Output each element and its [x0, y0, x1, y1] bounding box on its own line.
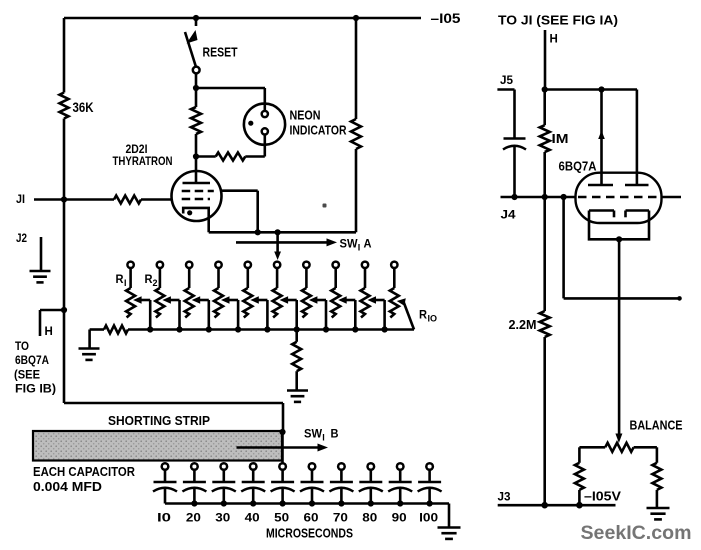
svg-text:FIG IB): FIG IB): [15, 382, 56, 396]
svg-text:–I05V: –I05V: [584, 490, 622, 504]
svg-text:R: R: [419, 308, 427, 322]
svg-text:SW: SW: [340, 237, 359, 251]
svg-text:6BQ7A: 6BQ7A: [15, 353, 49, 367]
svg-text:THYRATRON: THYRATRON: [113, 154, 173, 168]
svg-text:RESET: RESET: [203, 46, 238, 60]
svg-text:30: 30: [215, 511, 230, 525]
svg-text:2: 2: [153, 278, 158, 288]
svg-text:TO JI (SEE FIG IA): TO JI (SEE FIG IA): [498, 14, 618, 28]
svg-text:JI: JI: [16, 194, 25, 206]
svg-text:R: R: [116, 272, 124, 286]
svg-text:TO: TO: [15, 339, 29, 353]
svg-text:60: 60: [304, 511, 319, 525]
svg-text:H: H: [45, 326, 53, 338]
svg-text:BALANCE: BALANCE: [630, 419, 683, 433]
svg-text:I: I: [124, 278, 127, 288]
svg-text:B: B: [331, 427, 339, 441]
svg-text:40: 40: [245, 511, 260, 525]
svg-text:J5: J5: [500, 75, 514, 87]
svg-text:NEON: NEON: [290, 109, 321, 123]
svg-text:SHORTING STRIP: SHORTING STRIP: [108, 414, 210, 428]
svg-text:6BQ7A: 6BQ7A: [559, 160, 597, 174]
svg-text:SeekIC.com: SeekIC.com: [581, 522, 692, 544]
svg-text:J2: J2: [16, 233, 27, 245]
svg-text:20: 20: [186, 511, 201, 525]
svg-text:EACH CAPACITOR: EACH CAPACITOR: [33, 465, 135, 479]
svg-text:IO: IO: [428, 314, 438, 324]
svg-text:INDICATOR: INDICATOR: [290, 124, 347, 138]
svg-text:0.004 MFD: 0.004 MFD: [33, 480, 102, 494]
svg-text:50: 50: [274, 511, 289, 525]
svg-text:H: H: [550, 34, 558, 46]
svg-text:MICROSECONDS: MICROSECONDS: [266, 527, 353, 541]
svg-text:70: 70: [333, 511, 348, 525]
svg-text:I00: I00: [419, 511, 438, 525]
svg-text:2.2M: 2.2M: [509, 318, 537, 332]
svg-text:I: I: [358, 243, 361, 253]
svg-text:I: I: [322, 433, 325, 443]
svg-text:I0: I0: [157, 511, 171, 525]
svg-text:IM: IM: [552, 132, 569, 146]
svg-text:90: 90: [392, 511, 407, 525]
svg-text:(SEE: (SEE: [14, 368, 40, 382]
svg-text:J3: J3: [498, 492, 511, 504]
svg-text:80: 80: [362, 511, 377, 525]
svg-text:J4: J4: [501, 210, 517, 222]
svg-text:36K: 36K: [73, 99, 94, 115]
svg-text:–I05: –I05: [431, 11, 462, 26]
svg-text:A: A: [364, 237, 372, 251]
svg-text:SW: SW: [304, 427, 323, 441]
